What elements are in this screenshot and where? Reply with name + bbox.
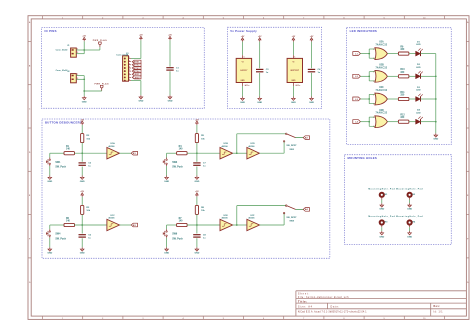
wire led to rail row2 bbox=[421, 75, 436, 77]
svg-text:R10: R10 bbox=[400, 69, 405, 71]
svg-text:GND: GND bbox=[241, 80, 246, 82]
svg-text:GND: GND bbox=[164, 181, 169, 183]
section box LED INDICATORS bbox=[347, 28, 452, 145]
junction rc U1A bbox=[81, 152, 83, 154]
svg-text:1: 1 bbox=[373, 49, 374, 51]
svg-text:74AHC32: 74AHC32 bbox=[375, 44, 387, 47]
svg-text:U2D: U2D bbox=[379, 110, 384, 112]
or-gate U2D bbox=[373, 110, 387, 128]
wire buf2 out U1F bbox=[260, 224, 285, 226]
wire PWR_FLAG1 stem bbox=[99, 47, 101, 50]
wire buf out U1C bbox=[120, 224, 132, 226]
svg-text:GND: GND bbox=[240, 102, 245, 104]
global label L1 bbox=[353, 52, 361, 56]
pin U4 gnd bbox=[243, 83, 246, 88]
svg-text:U2C: U2C bbox=[379, 87, 384, 89]
global label B2 bbox=[303, 136, 309, 140]
schmitt buffer U1E bbox=[220, 215, 233, 231]
junction rc U1B bbox=[196, 152, 198, 154]
svg-text:GND: GND bbox=[194, 181, 199, 183]
svg-text:GND: GND bbox=[138, 101, 143, 103]
svg-text:GND: GND bbox=[47, 253, 52, 255]
LED D2 bbox=[416, 64, 423, 79]
wire cap gnd U1A bbox=[81, 167, 83, 176]
svg-text:2: 2 bbox=[77, 78, 78, 80]
svg-text:Title:: Title: bbox=[298, 300, 308, 304]
junction rail row2 bbox=[435, 75, 437, 77]
wire J3 gnd stem bbox=[140, 81, 142, 96]
capacitor C3 bbox=[256, 69, 269, 74]
svg-text:Conn_01x02: Conn_01x02 bbox=[56, 70, 69, 72]
svg-text:MountingHole_Pad: MountingHole_Pad bbox=[368, 187, 395, 190]
svg-text:SW3: SW3 bbox=[172, 162, 178, 164]
wire J1 pin1 bbox=[76, 49, 84, 51]
svg-text:x1.1v: x1.1v bbox=[296, 85, 301, 87]
regulator U4 bbox=[236, 58, 251, 82]
global label B3 bbox=[131, 223, 137, 227]
svg-text:1: 1 bbox=[77, 49, 78, 51]
junction rail row4 bbox=[435, 121, 437, 123]
ground LED rail bbox=[433, 133, 438, 140]
capacitor C7 bbox=[193, 163, 206, 168]
svg-text:GND: GND bbox=[80, 253, 85, 255]
wire pullup top U1B bbox=[196, 125, 198, 134]
svg-text:2: 2 bbox=[373, 126, 374, 128]
wire label to gate row2 bbox=[360, 75, 369, 77]
svg-text:x1.1v: x1.1v bbox=[245, 85, 250, 87]
wire cap gnd U1C bbox=[81, 238, 83, 247]
power flag PWR_FLAG2 bbox=[94, 83, 108, 91]
global label J3 pin4 bbox=[132, 67, 141, 70]
svg-text:GND: GND bbox=[47, 181, 52, 183]
wire gate out row4 bbox=[387, 121, 398, 123]
wire label to gate row4 bbox=[360, 121, 369, 123]
value U5 bbox=[296, 85, 301, 87]
pin H4 bbox=[409, 224, 411, 227]
power flag PWR_FLAG1 bbox=[93, 39, 107, 47]
svg-text:MountingHole_Pad: MountingHole_Pad bbox=[396, 187, 423, 190]
wire U4 gnd bbox=[242, 86, 244, 97]
junction rc U1E bbox=[196, 224, 198, 226]
global label J3 pin3 bbox=[132, 63, 141, 66]
svg-text:Conn_01x08: Conn_01x08 bbox=[116, 54, 129, 56]
junction rail row3 bbox=[435, 98, 437, 100]
wire H2 gnd bbox=[409, 200, 411, 204]
wire led to rail row3 bbox=[421, 98, 436, 100]
wire PWR_FLAG1 to +5V rail bbox=[84, 49, 100, 51]
wire led gnd rail bbox=[435, 54, 437, 134]
global label B4 bbox=[303, 208, 309, 212]
wire sw drop U1E bbox=[166, 225, 168, 229]
global label L4 bbox=[353, 120, 361, 124]
svg-text:IO PINS: IO PINS bbox=[45, 29, 57, 33]
svg-text:MountingHole_Pad: MountingHole_Pad bbox=[396, 215, 423, 218]
junction feedback U1E bbox=[236, 224, 238, 226]
wire pullup top U1E bbox=[196, 197, 198, 206]
wire led to rail row1 bbox=[421, 53, 436, 55]
mounting hole H3 bbox=[368, 215, 395, 224]
title block bbox=[296, 291, 467, 316]
wire sw gnd U1C bbox=[49, 238, 51, 248]
wire cap top U1A bbox=[81, 153, 83, 162]
wire res to led row2 bbox=[409, 75, 416, 77]
or-gate U2B bbox=[373, 64, 387, 82]
svg-text:GND: GND bbox=[407, 236, 412, 238]
svg-text:40106: 40106 bbox=[248, 217, 255, 220]
svg-text:GND: GND bbox=[291, 102, 296, 104]
resistor R12 bbox=[398, 115, 409, 124]
LED D1 bbox=[416, 41, 423, 56]
svg-text:40106: 40106 bbox=[222, 217, 229, 220]
wire C4 top bbox=[311, 42, 313, 69]
pin numbers J1 bbox=[77, 49, 78, 55]
schmitt buffer U1D bbox=[247, 143, 260, 159]
LED D4 bbox=[416, 109, 423, 125]
resistor R11 bbox=[398, 92, 409, 101]
wire cap top U1B bbox=[196, 153, 198, 162]
or-gate U2A bbox=[373, 41, 387, 60]
svg-text:R11: R11 bbox=[400, 92, 405, 94]
svg-text:GND: GND bbox=[82, 101, 87, 103]
wire res to led row3 bbox=[409, 98, 416, 100]
schmitt buffer U1B bbox=[220, 143, 233, 159]
switch SW6 bbox=[163, 229, 183, 240]
wire res to buf U1C bbox=[75, 224, 107, 226]
resistor R4 bbox=[177, 145, 188, 155]
power +5V C1 bbox=[168, 35, 172, 41]
wire PWR_FLAG2 stem bbox=[101, 90, 103, 93]
wire pullup top U1A bbox=[81, 125, 83, 134]
junction feedback U1B bbox=[236, 152, 238, 154]
svg-text:GND: GND bbox=[291, 80, 296, 82]
junction gate input row4 bbox=[368, 121, 370, 123]
svg-text:GND: GND bbox=[379, 236, 384, 238]
power input U5 bbox=[292, 36, 296, 42]
svg-text:MOUNTING HOLES: MOUNTING HOLES bbox=[348, 156, 378, 160]
svg-text:GND: GND bbox=[164, 253, 169, 255]
wire res to buf U1A bbox=[75, 152, 107, 154]
svg-text:74AHC32: 74AHC32 bbox=[375, 89, 387, 92]
section box IO PINS bbox=[42, 28, 205, 109]
svg-text:5v Power Supply: 5v Power Supply bbox=[230, 29, 257, 33]
ground H3 bbox=[379, 231, 384, 238]
wire C1 top bbox=[169, 40, 171, 66]
svg-text:NCP1117: NCP1117 bbox=[291, 70, 300, 72]
svg-text:GND: GND bbox=[168, 101, 173, 103]
svg-text:SW_DPDT: SW_DPDT bbox=[286, 145, 297, 147]
wire sw gnd U1B bbox=[166, 166, 168, 176]
wire H1 gnd bbox=[381, 200, 383, 204]
svg-text:SW_Push: SW_Push bbox=[55, 238, 66, 240]
wire pullup bottom U1C bbox=[81, 214, 83, 225]
resistor R3 bbox=[81, 205, 91, 214]
ground SW1 bbox=[47, 176, 52, 183]
svg-text:File: button-debouncer.kicad_s: File: button-debouncer.kicad_sch bbox=[298, 296, 349, 299]
wire cap gnd U1E bbox=[196, 238, 198, 247]
wire feedback across U1B bbox=[237, 133, 286, 135]
resistor R8 bbox=[195, 205, 205, 214]
global label J3 pin7 bbox=[132, 76, 141, 79]
ground C8 bbox=[194, 247, 199, 254]
svg-text:2: 2 bbox=[373, 58, 374, 60]
wire feedback up U1E bbox=[236, 206, 238, 225]
svg-text:1: 1 bbox=[77, 74, 78, 76]
mounting hole H4 bbox=[396, 215, 423, 224]
capacitor C6 bbox=[79, 235, 92, 240]
connector J2 bbox=[56, 70, 77, 83]
wire H3 gnd bbox=[381, 227, 383, 231]
wire gate out row3 bbox=[387, 98, 398, 100]
section box BUTTON DEBOUNCERS bbox=[42, 119, 330, 258]
ground C4 bbox=[309, 97, 314, 104]
svg-text:GND: GND bbox=[80, 181, 85, 183]
wire J2 pin2 bbox=[76, 78, 84, 80]
junction PWR_FLAG2 bbox=[83, 90, 85, 92]
wire J2 gnd rail bbox=[83, 76, 85, 96]
svg-text:2: 2 bbox=[373, 81, 374, 83]
svg-text:SW_Push: SW_Push bbox=[55, 167, 66, 169]
power +5V U1A bbox=[80, 119, 84, 125]
svg-text:40106: 40106 bbox=[108, 217, 115, 220]
regulator U5 bbox=[287, 58, 302, 82]
pin numbers J2 bbox=[77, 74, 78, 80]
resistor R1 bbox=[64, 146, 75, 155]
resistor R10 bbox=[398, 69, 409, 78]
switch SW5 SPDT bbox=[283, 133, 303, 151]
wire buf out U1A bbox=[120, 152, 132, 154]
wire U4 in bbox=[242, 42, 244, 56]
capacitor C5 bbox=[79, 163, 92, 168]
ground SW6 bbox=[164, 247, 169, 254]
power +5V C4 bbox=[310, 36, 314, 42]
junction rc U1C bbox=[81, 224, 83, 226]
svg-text:GND: GND bbox=[309, 102, 314, 104]
junction J1 pin1 bbox=[83, 49, 85, 51]
ground C3 bbox=[257, 97, 262, 104]
ground SW3 bbox=[164, 176, 169, 183]
svg-text:74AHC32: 74AHC32 bbox=[375, 66, 387, 69]
resistor R5 bbox=[195, 134, 205, 143]
resistor R9 bbox=[398, 46, 409, 55]
pin U5 in bbox=[293, 55, 295, 58]
wire res to led row4 bbox=[409, 121, 416, 123]
pin U4 in bbox=[243, 55, 245, 58]
global label J3 pin6 bbox=[132, 73, 141, 76]
wire buf2 up U1F bbox=[283, 213, 285, 225]
global label B1 bbox=[131, 151, 137, 155]
ground SW4 bbox=[47, 247, 52, 254]
svg-text:LED: LED bbox=[416, 44, 421, 46]
wire buf2 out U1D bbox=[260, 152, 285, 154]
pin H3 bbox=[381, 224, 383, 227]
svg-text:SW_Push: SW_Push bbox=[172, 238, 183, 240]
ground J3 bbox=[138, 95, 143, 102]
junction gate input row3 bbox=[368, 98, 370, 100]
svg-text:Date:: Date: bbox=[331, 305, 340, 308]
power +5V U1C bbox=[80, 191, 84, 197]
LED D3 bbox=[416, 87, 423, 102]
wire +5V rail J1 bbox=[83, 41, 85, 53]
wire cap top U1C bbox=[81, 225, 83, 234]
wire buf1 to buf2 U1B bbox=[233, 152, 247, 154]
svg-text:MountingHole_Pad: MountingHole_Pad bbox=[368, 215, 395, 218]
mounting hole H2 bbox=[396, 187, 423, 197]
ground U5 bbox=[291, 97, 296, 104]
svg-text:1: 1 bbox=[373, 94, 374, 96]
svg-text:GND: GND bbox=[257, 102, 262, 104]
resistor R6 bbox=[64, 218, 75, 227]
svg-text:U1A: U1A bbox=[110, 142, 115, 145]
svg-text:SW6: SW6 bbox=[172, 234, 178, 236]
wire label to gate row3 bbox=[360, 98, 369, 100]
wire buf1 to buf2 U1E bbox=[233, 224, 247, 226]
wire PWR_FLAG2 to gnd rail bbox=[84, 90, 102, 92]
svg-text:Id: 1/1: Id: 1/1 bbox=[434, 311, 444, 313]
svg-text:2: 2 bbox=[373, 104, 374, 106]
wire res to buf U1E bbox=[187, 224, 220, 226]
wire feedback across U1E bbox=[237, 205, 286, 207]
power +5V C3 bbox=[258, 36, 262, 42]
svg-text:LED INDICATORS: LED INDICATORS bbox=[350, 29, 377, 33]
wire sw gnd U1E bbox=[166, 238, 168, 248]
wire sw to res U1C bbox=[50, 224, 64, 226]
wire cap top U1E bbox=[196, 225, 198, 234]
wire gate input tie row2 bbox=[369, 72, 375, 81]
wire C3 bottom bbox=[259, 73, 261, 97]
svg-text:LD1117: LD1117 bbox=[240, 70, 248, 72]
svg-text:LED: LED bbox=[416, 67, 421, 69]
capacitor C4 bbox=[308, 68, 321, 74]
svg-text:40106: 40106 bbox=[108, 145, 115, 148]
wire gate input tie row4 bbox=[369, 117, 375, 126]
switch SW4 bbox=[46, 229, 66, 240]
svg-text:GND: GND bbox=[379, 209, 384, 211]
ground H1 bbox=[379, 203, 384, 210]
wire J3 pin1 bbox=[131, 58, 141, 60]
svg-text:GND: GND bbox=[433, 139, 438, 141]
wire H4 gnd bbox=[409, 227, 411, 231]
wire gate out row2 bbox=[387, 75, 398, 77]
schmitt buffer U1A bbox=[107, 142, 120, 159]
ground C7 bbox=[194, 176, 199, 183]
svg-text:SW4: SW4 bbox=[55, 233, 61, 236]
wire U5 gnd bbox=[292, 86, 294, 97]
ground J2 bbox=[82, 96, 87, 103]
schmitt buffer U1F bbox=[247, 215, 260, 231]
value U4 bbox=[245, 85, 250, 87]
junction gate input row1 bbox=[368, 53, 370, 55]
svg-text:LED: LED bbox=[416, 90, 421, 92]
svg-text:GND: GND bbox=[407, 209, 412, 211]
pin U5 gnd bbox=[293, 83, 296, 88]
section box 5v Power Supply bbox=[227, 27, 321, 108]
power +5V U1E bbox=[195, 191, 199, 197]
global label L3 bbox=[353, 97, 361, 101]
wire J3 pin8 bbox=[131, 80, 141, 82]
ground C1 bbox=[168, 95, 173, 102]
pin H2 bbox=[409, 197, 411, 200]
svg-text:Size: A4: Size: A4 bbox=[298, 305, 313, 308]
wire pullup bottom U1B bbox=[196, 143, 198, 154]
wire sw to res U1B bbox=[167, 152, 177, 154]
svg-text:LED2: LED2 bbox=[134, 77, 141, 79]
or-gate U2C bbox=[373, 87, 387, 105]
power +5V J1 bbox=[82, 36, 86, 42]
junction gate input row2 bbox=[368, 75, 370, 77]
global label J3 pin2 bbox=[132, 60, 141, 63]
wire pullup bottom U1A bbox=[81, 143, 83, 154]
svg-text:U2A: U2A bbox=[379, 41, 384, 44]
capacitor C1 bbox=[166, 68, 179, 73]
resistor R2 bbox=[81, 134, 91, 143]
svg-text:2: 2 bbox=[77, 52, 78, 54]
global label J3 pin5 bbox=[132, 70, 141, 73]
wire gate input tie row3 bbox=[369, 94, 375, 103]
wire sw to res U1A bbox=[50, 152, 64, 154]
wire C3 top bbox=[259, 42, 261, 69]
svg-text:40106: 40106 bbox=[248, 145, 255, 148]
wire buf2 up U1D bbox=[283, 141, 285, 153]
wire U5 in bbox=[292, 42, 294, 56]
svg-text:R12: R12 bbox=[400, 115, 405, 117]
svg-text:40106: 40106 bbox=[222, 145, 229, 148]
wire sw gnd U1A bbox=[49, 166, 51, 176]
power +5V U1B bbox=[195, 119, 199, 125]
svg-text:Conn_01x02: Conn_01x02 bbox=[56, 50, 69, 52]
wire J3 +5V stem bbox=[140, 40, 142, 58]
wire res to buf U1B bbox=[187, 152, 220, 154]
wire pullup top U1C bbox=[81, 197, 83, 206]
svg-text:U2B: U2B bbox=[379, 64, 384, 66]
wire C4 bottom bbox=[311, 73, 313, 97]
wire sw to res U1E bbox=[167, 224, 177, 226]
wire pullup bottom U1E bbox=[196, 214, 198, 225]
wire label to gate row1 bbox=[360, 53, 369, 55]
svg-text:BUTTON DEBOUNCERS: BUTTON DEBOUNCERS bbox=[45, 121, 82, 125]
wire J2 pin1 bbox=[76, 75, 84, 77]
svg-text:1: 1 bbox=[373, 72, 374, 74]
svg-text:Rev:: Rev: bbox=[434, 305, 441, 308]
wire C1 bottom bbox=[169, 71, 171, 95]
switch SW3 bbox=[163, 158, 183, 169]
ground C6 bbox=[80, 247, 85, 254]
svg-text:LED: LED bbox=[416, 112, 421, 114]
pin H1 bbox=[381, 197, 383, 200]
mounting hole H1 bbox=[368, 187, 395, 197]
wire sw drop U1B bbox=[166, 153, 168, 157]
ground H4 bbox=[407, 231, 412, 238]
power +5V J3 bbox=[139, 35, 143, 41]
svg-text:1: 1 bbox=[373, 117, 374, 119]
switch SW8 SPDT bbox=[283, 205, 303, 223]
svg-text:SW1: SW1 bbox=[55, 162, 61, 164]
wire cap gnd U1B bbox=[196, 167, 198, 176]
capacitor C8 bbox=[193, 235, 206, 240]
junction J2 pin2 bbox=[83, 78, 85, 80]
svg-text:SW_DPDT: SW_DPDT bbox=[286, 217, 297, 219]
svg-text:KiCad E.D.A. kicad 7.0.1-3b83: KiCad E.D.A. kicad 7.0.1-3b83917e11-172~… bbox=[298, 310, 367, 313]
global label L2 bbox=[353, 74, 361, 78]
wire sw drop U1A bbox=[49, 153, 51, 157]
wire feedback up U1B bbox=[236, 134, 238, 153]
section box MOUNTING HOLES bbox=[345, 155, 452, 245]
ground C5 bbox=[80, 176, 85, 183]
wire J1 pin2 bbox=[76, 53, 84, 55]
connector J3 bbox=[116, 53, 131, 82]
resistor R7 bbox=[177, 218, 188, 227]
svg-text:GND: GND bbox=[194, 253, 199, 255]
svg-text:SW_Push: SW_Push bbox=[172, 167, 183, 169]
